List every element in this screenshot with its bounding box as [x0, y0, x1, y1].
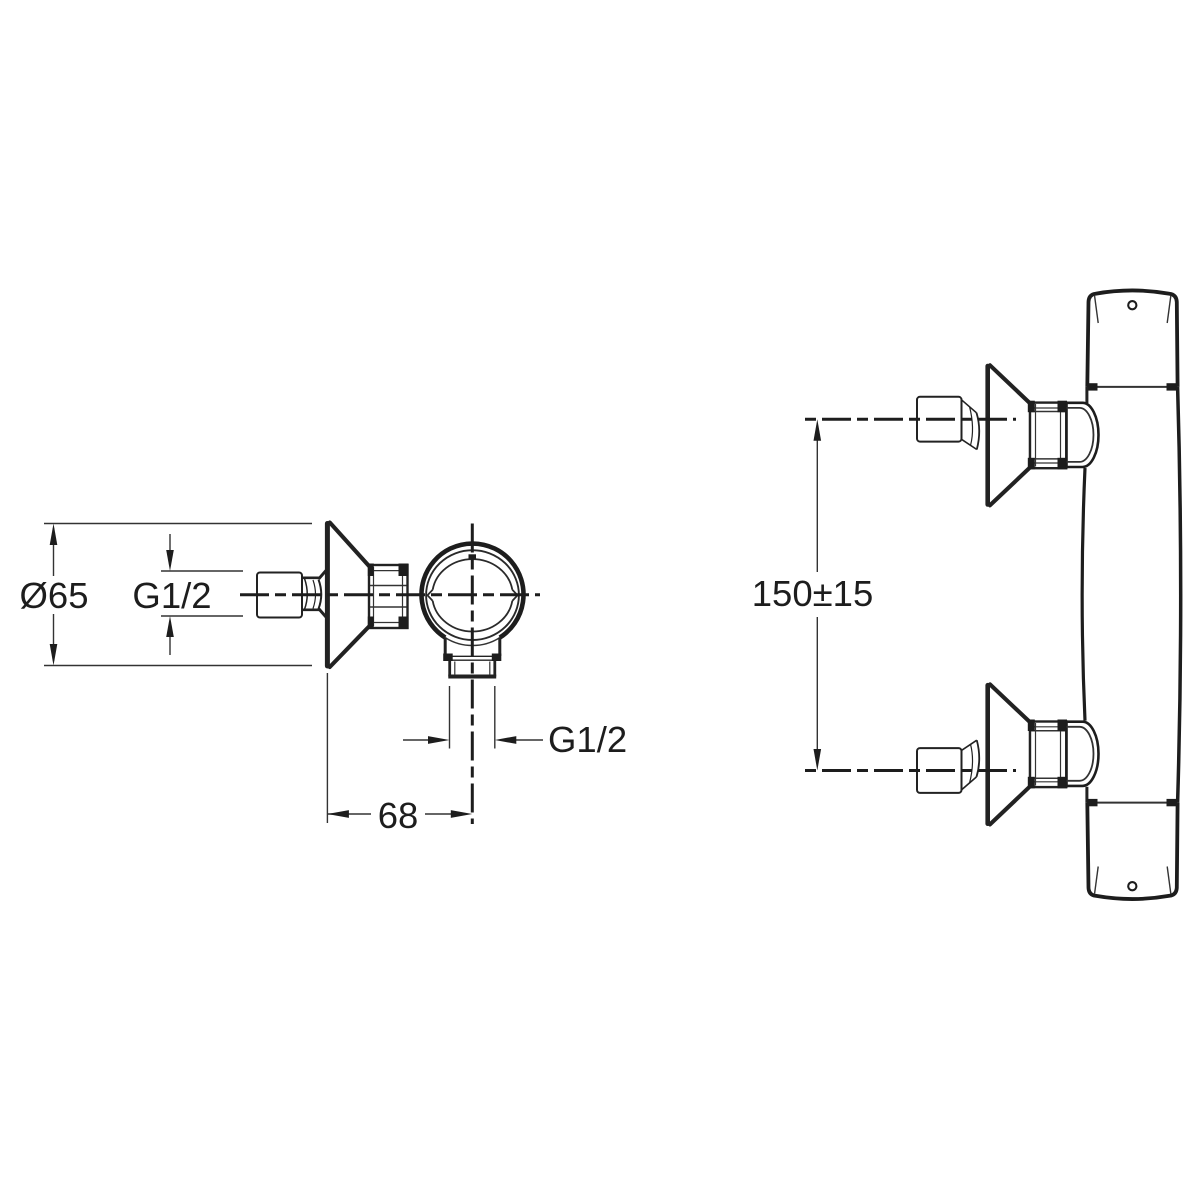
cone top slope: [330, 523, 369, 567]
dimension Ø65 extension line bottom: [44, 665, 312, 667]
centerline vertical (left view): [471, 524, 474, 825]
dimension Ø65 arrow down: [50, 644, 58, 666]
outlet shoulder (left view): [445, 638, 500, 661]
upper eccentric olive: [962, 400, 980, 450]
top panel edge squares: [1087, 383, 1098, 390]
extension line outlet right: [494, 686, 496, 749]
bottom panel edge squares: [1087, 799, 1098, 806]
dimension G1/2 outlet left arrow: [403, 739, 429, 741]
cone narrow edge: [368, 566, 370, 628]
lower escutcheon cone: [988, 684, 1030, 824]
eccentric olive (left view): [303, 571, 327, 618]
lower wall union: [917, 748, 962, 793]
top panel inner bevel left: [1095, 296, 1099, 323]
valve body circle outer (thick arc, open at outlet): [421, 544, 523, 638]
centerline horizontal (left view): [240, 593, 540, 596]
dimension 68 line left: [327, 813, 371, 815]
bar body left edge upper stub: [1085, 387, 1088, 403]
upper dome cap: [1067, 403, 1099, 467]
dimension G1/2 arrow down: [169, 534, 171, 553]
upper hex nut: [1028, 401, 1067, 470]
upper wall union: [917, 397, 962, 442]
dimension Ø65 extension line top: [44, 523, 312, 525]
valve body circle inner bottom arc: [433, 601, 513, 632]
upper escutcheon cone: [988, 365, 1030, 505]
wall union (left view): [257, 573, 302, 618]
hex nut (left view): [368, 564, 409, 630]
dimension 150±15 line upper: [816, 440, 818, 572]
nut corner blocks: [368, 564, 374, 577]
inner circle top mark: [469, 554, 477, 558]
cone wide edge: [325, 524, 330, 667]
dimension G1/2 arrow up: [169, 634, 171, 655]
lower centerline (right view): [805, 769, 1016, 772]
inner circle right notch: [512, 590, 517, 601]
extension line escutcheon (left): [326, 673, 328, 823]
svg-text:G1/2: G1/2: [548, 719, 627, 760]
top panel inner bevel right: [1167, 296, 1171, 323]
svg-text:G1/2: G1/2: [132, 575, 211, 616]
lower eccentric olive: [962, 740, 980, 790]
dimension 68 line right: [425, 813, 451, 815]
bottom screw hole: [1128, 882, 1136, 890]
bottom panel of bar: [1087, 803, 1177, 899]
valve body circle inner top arc: [433, 559, 513, 590]
escutcheon cone (left view): [327, 523, 369, 668]
outlet lower pipe (left view): [448, 661, 496, 677]
bottom panel top edge: [1087, 802, 1177, 804]
dimension Ø65 line upper segment: [53, 528, 55, 576]
outlet step corner blocks: [443, 654, 453, 662]
dimension 150±15 line lower: [816, 617, 818, 750]
dimension G1/2 inlet line bottom: [161, 615, 243, 617]
dimension Ø65 arrow up: [50, 524, 58, 546]
top panel of bar: [1087, 290, 1177, 386]
lower hex nut: [1028, 720, 1067, 789]
top screw hole: [1128, 301, 1136, 309]
bottom panel inner bevel left: [1095, 867, 1099, 894]
top panel bottom edge: [1087, 386, 1177, 388]
svg-text:150±15: 150±15: [752, 573, 874, 614]
valve body circle outer bottom thin arc: [445, 638, 500, 646]
valve body circle middle: [426, 550, 519, 640]
upper centerline (right view): [805, 418, 1016, 421]
dimension G1/2 inlet line top: [161, 570, 243, 572]
dimension G1/2 outlet right arrow: [516, 739, 543, 741]
bar body left edge middle: [1082, 468, 1085, 721]
bar body left edge lower stub: [1085, 787, 1088, 803]
extension line outlet left: [449, 686, 451, 749]
dimension Ø65 line lower segment: [53, 614, 55, 661]
bottom panel inner bevel right: [1167, 867, 1171, 894]
bar body right edge: [1178, 387, 1181, 803]
svg-text:Ø65: Ø65: [20, 575, 89, 616]
svg-text:68: 68: [378, 795, 419, 836]
lower dome cap: [1067, 722, 1099, 786]
cone bottom slope: [330, 627, 369, 668]
inner circle left notch: [428, 590, 433, 601]
